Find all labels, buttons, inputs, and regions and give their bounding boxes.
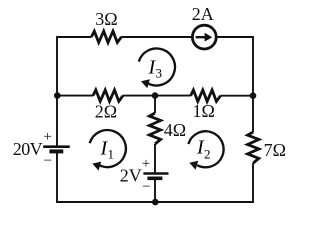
current source 2A: [192, 4, 217, 49]
svg-text:−: −: [44, 153, 52, 169]
wire center branch middle: [154, 144, 156, 173]
voltage source 2V: [120, 156, 169, 195]
svg-text:+: +: [43, 129, 51, 145]
wire center branch upper: [154, 96, 156, 113]
wire left lower segment: [56, 152, 58, 203]
wire top middle segment: [122, 36, 193, 38]
mesh arrow I3: [139, 48, 175, 88]
resistor 4ohm: [149, 113, 160, 144]
svg-text:1Ω: 1Ω: [193, 101, 215, 121]
resistor 2ohm: [93, 90, 123, 101]
svg-text:+: +: [142, 156, 150, 172]
voltage source 20V: [13, 129, 70, 169]
wire middle horizontal center: [123, 95, 191, 97]
svg-text:−: −: [142, 179, 150, 195]
svg-text:2: 2: [204, 147, 211, 162]
svg-text:2Ω: 2Ω: [95, 101, 117, 121]
wire top-right segment: [216, 37, 253, 132]
mesh arrow I1: [90, 130, 126, 171]
svg-text:1: 1: [108, 147, 115, 162]
node center junction: [152, 92, 159, 99]
svg-text:7Ω: 7Ω: [264, 140, 286, 160]
svg-text:3: 3: [156, 66, 163, 81]
svg-text:2A: 2A: [192, 4, 214, 24]
node left-middle junction: [54, 92, 61, 99]
node right-middle junction: [250, 92, 257, 99]
wire middle horizontal left: [57, 95, 93, 97]
wire middle horizontal right: [221, 95, 253, 97]
svg-text:4Ω: 4Ω: [164, 120, 186, 140]
resistor 7ohm: [248, 132, 259, 163]
wire top-left segment: [57, 37, 92, 146]
node bottom-center junction: [152, 199, 159, 206]
wire bottom: [56, 201, 254, 203]
wire right lower segment: [252, 163, 254, 202]
svg-text:3Ω: 3Ω: [95, 9, 117, 29]
resistor 1ohm: [191, 90, 221, 101]
wire center branch lower: [154, 179, 156, 202]
svg-text:2V: 2V: [120, 166, 142, 186]
svg-text:20V: 20V: [13, 139, 43, 159]
resistor 3ohm: [92, 31, 122, 42]
mesh arrow I2: [188, 131, 223, 169]
